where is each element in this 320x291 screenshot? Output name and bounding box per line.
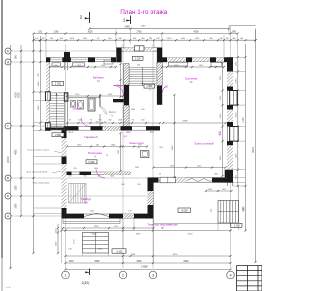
svg-text:План 1-го этажа: План 1-го этажа <box>120 9 168 16</box>
svg-text:Терраса под навесом: Терраса под навесом <box>148 223 178 227</box>
svg-text:90: 90 <box>106 155 108 157</box>
svg-text:4650: 4650 <box>15 149 17 155</box>
svg-text:1190: 1190 <box>54 31 60 33</box>
svg-text:Стена из газобет. блоков: Стена из газобет. блоков <box>27 149 49 151</box>
svg-text:Холл: Холл <box>108 110 115 114</box>
svg-text:Сан узел: Сан узел <box>73 108 84 111</box>
svg-text:1450: 1450 <box>135 167 139 169</box>
svg-text:Тамбур: Тамбур <box>81 197 92 201</box>
svg-text:3000: 3000 <box>87 31 93 33</box>
svg-text:6000: 6000 <box>183 261 189 263</box>
svg-text:90: 90 <box>149 90 151 92</box>
svg-text:2: 2 <box>122 273 124 277</box>
svg-text:Зона столовой: Зона столовой <box>194 142 213 146</box>
svg-text:Гостиная: Гостиная <box>185 77 198 81</box>
svg-text:450: 450 <box>141 109 144 111</box>
svg-text:3: 3 <box>152 273 154 277</box>
svg-text:760: 760 <box>73 168 76 170</box>
svg-text:1480: 1480 <box>141 26 147 28</box>
svg-text:2760: 2760 <box>136 31 142 33</box>
svg-text:2180: 2180 <box>235 78 237 84</box>
svg-text:1.380: 1.380 <box>146 86 152 88</box>
svg-text:2.060: 2.060 <box>55 135 61 137</box>
svg-text:Ш-1: Ш-1 <box>69 131 74 134</box>
svg-text:190: 190 <box>68 176 71 178</box>
svg-text:240: 240 <box>137 65 140 67</box>
svg-text:700: 700 <box>98 120 101 122</box>
svg-text:Прихожая: Прихожая <box>88 151 102 155</box>
svg-text:2: 2 <box>80 15 83 20</box>
svg-text:Ш-2: Ш-2 <box>126 131 131 134</box>
svg-text:-1.100: -1.100 <box>233 225 240 227</box>
svg-text:1480: 1480 <box>124 26 130 29</box>
svg-text:Гардероб: Гардероб <box>84 135 97 139</box>
svg-text:90: 90 <box>90 120 92 122</box>
svg-text:2.130: 2.130 <box>135 58 141 60</box>
svg-text:Кабинет: Кабинет <box>93 76 105 80</box>
svg-text:1580: 1580 <box>15 185 17 191</box>
svg-text:3090: 3090 <box>136 233 142 235</box>
svg-text:1: 1 <box>64 273 66 277</box>
svg-text:5280: 5280 <box>183 121 189 123</box>
svg-text:1060: 1060 <box>131 109 135 111</box>
svg-text:2(10): 2(10) <box>82 281 90 285</box>
svg-text:2.760: 2.760 <box>55 84 61 86</box>
svg-text:7130: 7130 <box>243 117 245 123</box>
svg-text:В-2: В-2 <box>219 131 222 136</box>
svg-text:В: В <box>7 176 9 180</box>
svg-text:1190: 1190 <box>235 153 237 158</box>
svg-text:0.000: 0.000 <box>89 162 95 164</box>
svg-text:170: 170 <box>128 211 131 213</box>
svg-text:30: 30 <box>104 121 106 123</box>
svg-text:4090: 4090 <box>193 31 199 33</box>
svg-text:ф.А3: ф.А3 <box>6 286 12 289</box>
svg-text:6008: 6008 <box>15 92 17 98</box>
svg-text:300: 300 <box>108 120 111 122</box>
svg-text:960: 960 <box>83 176 86 178</box>
svg-text:6000: 6000 <box>188 233 194 235</box>
svg-text:5080: 5080 <box>94 261 100 263</box>
svg-text:1400: 1400 <box>110 176 114 178</box>
svg-text:900: 900 <box>121 184 124 186</box>
svg-text:990: 990 <box>159 147 162 149</box>
svg-text:Изол. мин.ватой 100мм: Изол. мин.ватой 100мм <box>27 171 48 174</box>
svg-text:90: 90 <box>69 120 71 122</box>
svg-text:-0.050: -0.050 <box>181 211 188 213</box>
svg-text:20: 20 <box>159 174 161 176</box>
svg-text:Обои влагостойкие: Обои влагостойкие <box>33 182 50 185</box>
svg-text:14910: 14910 <box>253 146 255 153</box>
svg-text:3060: 3060 <box>136 261 142 263</box>
svg-text:1: 1 <box>123 18 126 23</box>
svg-text:В-4: В-4 <box>150 131 154 134</box>
svg-text:620: 620 <box>141 120 144 122</box>
svg-text:200: 200 <box>137 184 140 186</box>
svg-text:5080: 5080 <box>92 233 98 235</box>
svg-text:Е: Е <box>7 49 9 53</box>
svg-text:110: 110 <box>96 121 99 123</box>
svg-text:2300: 2300 <box>90 211 94 213</box>
svg-text:14080: 14080 <box>141 266 148 269</box>
svg-text:1400: 1400 <box>68 261 74 263</box>
svg-text:Зона кухни: Зона кухни <box>129 141 144 145</box>
svg-text:Б: Б <box>7 194 9 198</box>
svg-text:-1.100: -1.100 <box>116 251 123 253</box>
svg-text:4: 4 <box>229 273 231 277</box>
svg-text:14910: 14910 <box>7 156 10 163</box>
svg-text:2000: 2000 <box>235 112 237 118</box>
svg-text:1880: 1880 <box>15 203 17 209</box>
svg-text:90: 90 <box>132 120 134 122</box>
svg-text:6008: 6008 <box>19 92 21 98</box>
svg-text:1000: 1000 <box>118 120 122 122</box>
svg-text:1455: 1455 <box>214 174 218 176</box>
